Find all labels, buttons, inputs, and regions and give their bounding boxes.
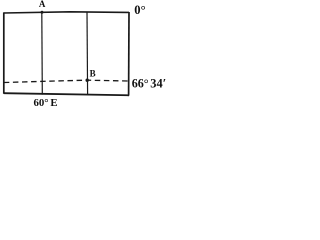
point B dot: [86, 79, 89, 82]
meridian A (60°E) vertical line: [41, 12, 44, 95]
svg-text:E: E: [50, 97, 57, 108]
svg-text:B: B: [90, 69, 96, 79]
svg-text:60°: 60°: [34, 97, 49, 108]
point A dot: [41, 11, 44, 14]
svg-text:A: A: [39, 0, 46, 9]
meridian B vertical line: [86, 12, 89, 95]
svg-text:0°: 0°: [134, 3, 145, 17]
map frame top border (equator side): [4, 12, 129, 13]
map frame bottom border: [4, 93, 129, 95]
map frame left border: [3, 12, 5, 93]
dashed parallel 66°34' (polar circle): [4, 80, 129, 82]
map frame right border (0° meridian): [128, 12, 130, 96]
svg-text:34′: 34′: [150, 76, 166, 90]
svg-text:66°: 66°: [132, 76, 149, 90]
